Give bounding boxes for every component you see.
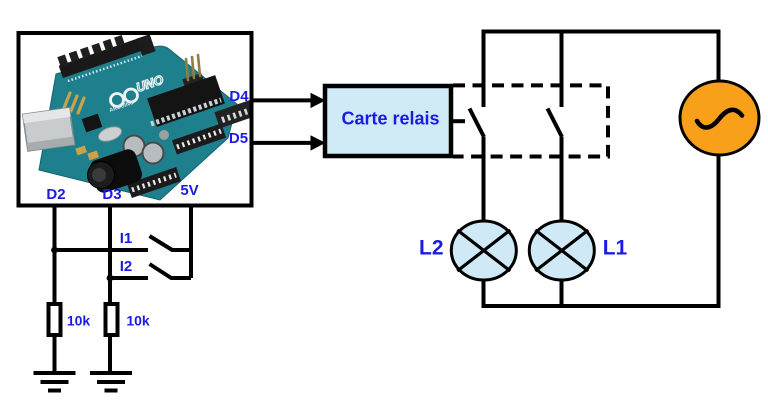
svg-text:Carte relais: Carte relais [341,109,439,129]
svg-text:I1: I1 [120,230,133,247]
svg-text:D4: D4 [229,88,249,105]
svg-text:D5: D5 [229,130,248,147]
svg-text:L1: L1 [603,237,628,260]
svg-text:L2: L2 [419,236,444,259]
svg-text:10k: 10k [126,313,150,329]
svg-text:10k: 10k [67,313,91,329]
svg-text:I2: I2 [120,258,133,275]
svg-text:D3: D3 [102,186,121,203]
svg-text:5V: 5V [180,182,198,199]
svg-text:D2: D2 [46,186,65,203]
